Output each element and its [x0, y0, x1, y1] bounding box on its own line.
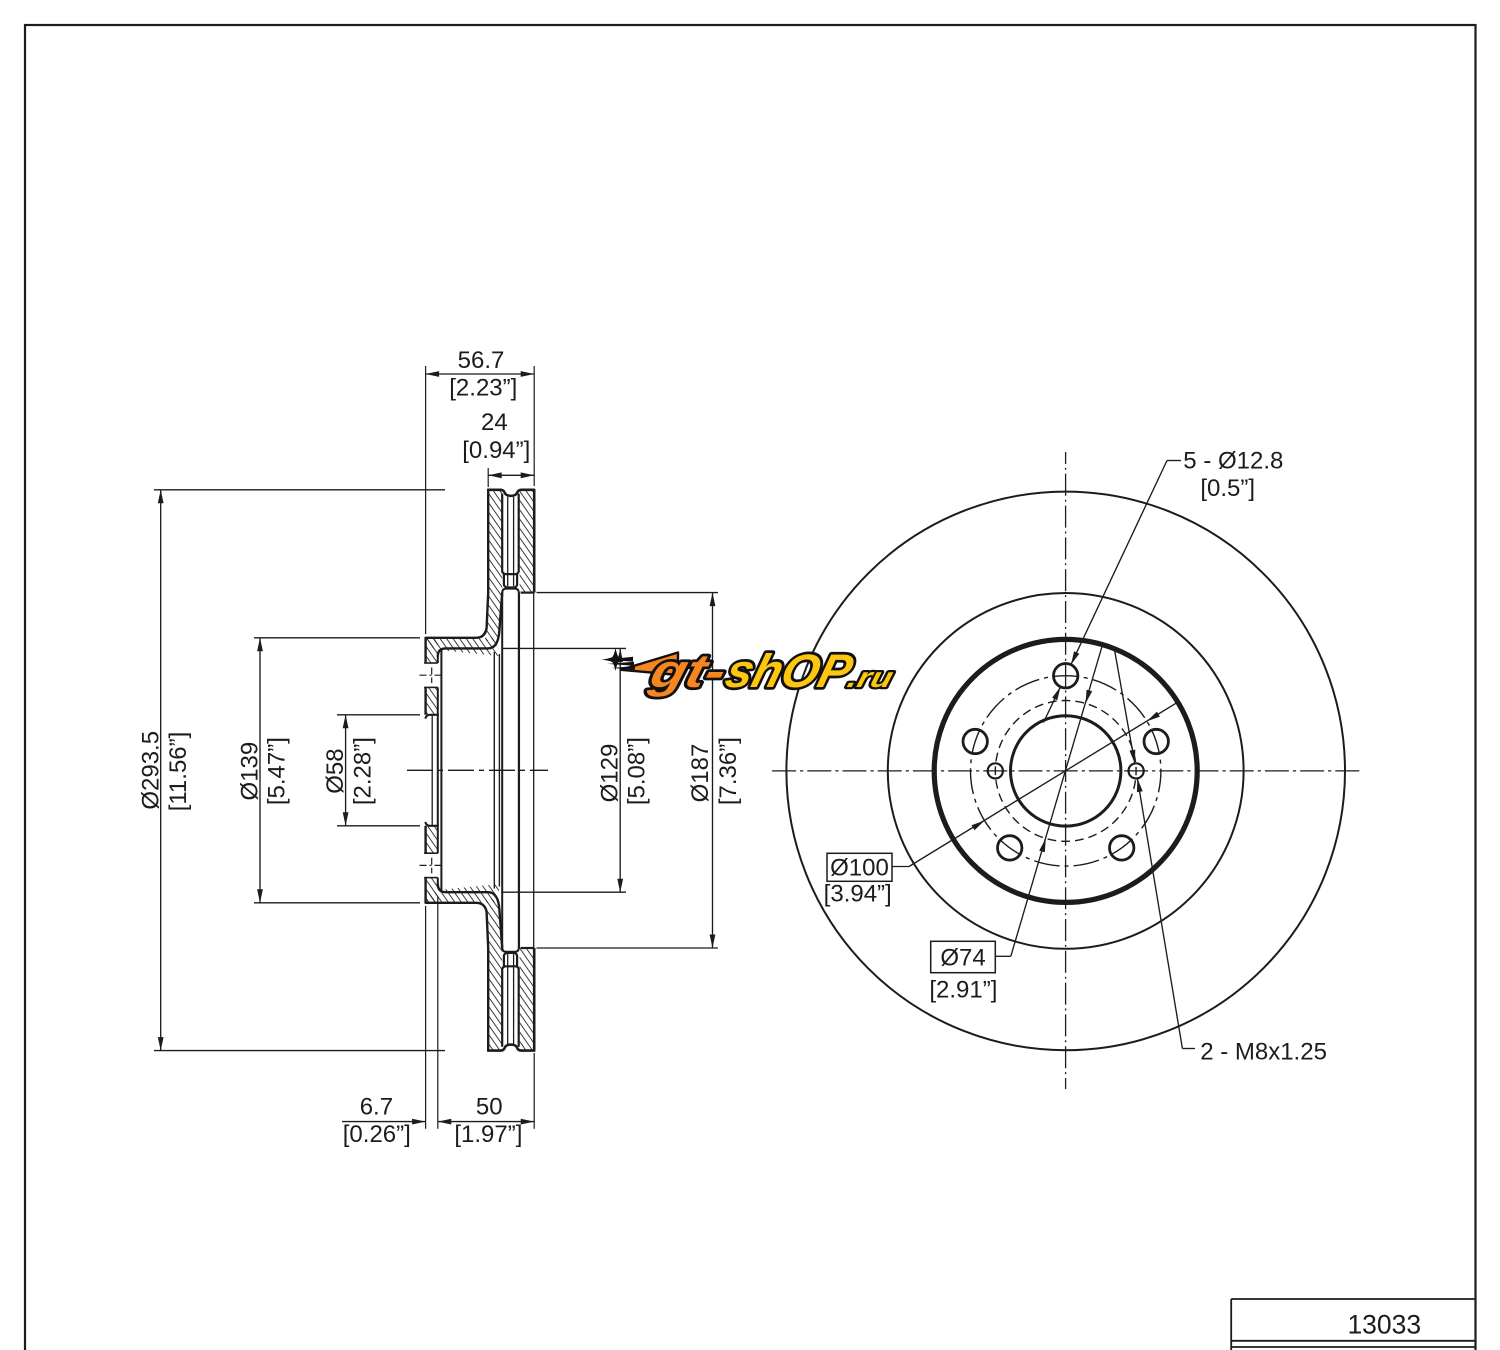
svg-text:Ø58: Ø58	[322, 748, 349, 793]
dim 56.7 line	[426, 373, 535, 375]
dim 6.7 arrow	[412, 1119, 426, 1125]
dim O58 line	[345, 715, 347, 826]
dim O139 line	[259, 638, 261, 903]
svg-text:[2.91”]: [2.91”]	[929, 976, 997, 1003]
section flange left face	[424, 638, 426, 663]
leader 5-O12.8 line lower	[1044, 687, 1061, 723]
dim O293.5 line	[160, 490, 162, 1051]
svg-text:[1.97”]: [1.97”]	[454, 1121, 522, 1148]
dim O58 arrows	[343, 715, 349, 729]
svg-text:5 - Ø12.8: 5 - Ø12.8	[1183, 447, 1283, 474]
dim O100 arrows	[972, 821, 985, 831]
section background line (neck silhouette a)	[493, 652, 495, 889]
section inboard face and neck lower	[426, 903, 489, 1051]
section neck inner + skirt inner upper	[438, 593, 502, 656]
section outboard plate inner edge lower	[521, 947, 535, 949]
dim 6.7/50 extension lines	[425, 906, 427, 1129]
circle O100 boltcircle dashdot	[970, 676, 1160, 866]
section vane lines lower	[507, 954, 509, 1044]
section background line (neck silhouette b)	[498, 654, 500, 887]
svg-text:Ø74: Ø74	[940, 945, 985, 972]
dim O293.5 arrows	[158, 490, 164, 504]
dim M8 arrow upper	[1130, 750, 1136, 764]
leader 5-O12.8 line upper	[1167, 460, 1181, 462]
M8 hole right	[1129, 763, 1144, 778]
front view centerline vertical	[1065, 452, 1067, 1089]
section inboard face and neck upper	[426, 490, 489, 638]
dim 50 arrows	[438, 1119, 452, 1125]
bolt hole O12.8 #5	[1144, 729, 1168, 753]
svg-text:[2.23”]: [2.23”]	[449, 375, 517, 402]
dim O74 diameter line	[995, 955, 1011, 957]
dim M8 line upper	[1114, 649, 1135, 764]
dim 6.7 line	[342, 1121, 426, 1123]
leader 5-O12.8 arrow upper	[1071, 651, 1079, 665]
section bolt hole center mark lower	[420, 864, 444, 866]
dim O129 arrows	[617, 648, 623, 662]
section disc outboard face upper	[533, 490, 536, 593]
circle outer O293.5	[786, 492, 1345, 1051]
section hatch: inboard plate upper	[488, 490, 502, 593]
svg-text:56.7: 56.7	[458, 347, 505, 374]
dim 56.7 arrows	[426, 371, 440, 377]
section disc bottom edge with vent notch	[488, 1045, 534, 1051]
section background line (outboard face silhouette)	[533, 593, 535, 948]
section hatch: flange upper a	[426, 638, 438, 663]
section vent channel walls lower	[502, 966, 519, 1046]
section hatch: outboard plate lower	[520, 948, 535, 1051]
circle O187	[888, 593, 1244, 949]
section vane lines upper	[507, 497, 509, 587]
section flange bolt hole lower edges	[424, 852, 438, 854]
section bore upper edge	[426, 715, 438, 718]
section hatch: neck upper	[486, 593, 502, 641]
circle O74 dashed	[995, 701, 1136, 842]
section centerline	[407, 769, 548, 771]
dim O187 extension lines	[537, 592, 719, 594]
dim O129 extension lines	[503, 647, 626, 649]
svg-text:[0.5”]: [0.5”]	[1200, 475, 1255, 502]
section hatch: skirt fillet upper	[438, 648, 499, 656]
svg-text:[5.47”]: [5.47”]	[264, 737, 291, 805]
logo gt-shop.ru watermark	[602, 646, 897, 698]
dim O139 extension lines	[254, 637, 420, 639]
circle O139 thick	[934, 639, 1197, 902]
dim O74 arrows	[1039, 838, 1046, 852]
svg-text:Ø187: Ø187	[687, 744, 714, 803]
section disc top edge with vent notch	[488, 490, 534, 496]
section background line (flange-skirt edge)	[440, 648, 442, 892]
title block box	[1231, 1298, 1475, 1300]
front view centerline horizontal	[770, 770, 1360, 772]
svg-text:Ø129: Ø129	[597, 744, 624, 803]
label O74 box	[931, 941, 996, 972]
svg-text:24: 24	[481, 409, 508, 436]
svg-text:6.7: 6.7	[360, 1094, 393, 1121]
svg-text:[0.94”]: [0.94”]	[462, 437, 530, 464]
section vane end capsule lower	[504, 953, 517, 966]
svg-text:Ø100: Ø100	[830, 855, 889, 882]
section disc outboard face lower	[533, 948, 536, 1051]
section outboard plate inner edge upper	[521, 591, 535, 593]
svg-text:50: 50	[476, 1094, 503, 1121]
svg-text:[2.28”]: [2.28”]	[349, 737, 376, 805]
leader 5-O12.8 arrow lower	[1052, 687, 1060, 701]
svg-text:Ø293.5: Ø293.5	[137, 731, 164, 810]
section flange bolt hole upper edges	[424, 662, 438, 664]
dim O129 line	[619, 648, 621, 892]
svg-text:gt-: gt-	[644, 646, 732, 698]
section hatch: neck lower	[486, 899, 502, 948]
label O100 box	[827, 853, 892, 881]
dim O187 arrows	[710, 593, 716, 607]
section background line (channel wall silhouette)	[518, 593, 520, 948]
dim 24 extension line	[487, 468, 489, 487]
section hatch: inboard plate lower	[488, 948, 502, 1051]
dim O139 arrows	[257, 638, 263, 652]
svg-text:[5.08”]: [5.08”]	[624, 737, 651, 805]
dim 24 arrows	[488, 472, 502, 478]
svg-text:[11.56”]: [11.56”]	[165, 732, 192, 812]
section flange right face	[437, 656, 439, 663]
bolt hole O12.8 #2	[963, 729, 987, 753]
section hatch: flange lower a	[426, 826, 438, 853]
section vent channel walls upper	[502, 495, 519, 575]
svg-text:Ø139: Ø139	[237, 742, 264, 801]
dim O100 diameter line	[892, 866, 909, 868]
dim 56.7 extension lines	[425, 366, 427, 634]
svg-text:[3.94”]: [3.94”]	[824, 881, 892, 908]
section hatch: flange lower b	[426, 878, 438, 903]
dim 24 line	[488, 474, 534, 476]
section vane end capsule upper	[504, 575, 517, 588]
bolt hole O12.8 #4	[1110, 836, 1134, 860]
section bolt hole center mark upper	[420, 674, 444, 676]
section background line (bore chamfer edge)	[431, 715, 433, 826]
section neck inner + skirt inner lower	[438, 884, 502, 948]
section interior void capsule	[502, 589, 519, 952]
dim M8 line lower	[1137, 778, 1182, 1048]
dim O293.5 extension lines	[154, 489, 445, 491]
circle bore O58	[1010, 716, 1120, 826]
svg-text:shOP: shOP	[720, 646, 858, 698]
svg-text:13033: 13033	[1347, 1310, 1421, 1340]
section hatch: flange upper b	[426, 687, 438, 714]
svg-text:[7.36”]: [7.36”]	[715, 737, 742, 805]
svg-text:2 - M8x1.25: 2 - M8x1.25	[1200, 1039, 1327, 1066]
section hatch: skirt band lower	[426, 892, 497, 903]
dim O187 line	[712, 593, 714, 948]
dim 50 line	[438, 1121, 534, 1123]
section hatch: outboard plate upper	[520, 490, 535, 593]
bolt hole O12.8 #1	[1054, 664, 1078, 688]
bolt hole O12.8 #3	[998, 836, 1022, 860]
section bore lower edge	[426, 823, 438, 826]
dim O58 extension lines	[337, 714, 420, 716]
svg-text:[0.26”]: [0.26”]	[343, 1121, 411, 1148]
section hatch: skirt fillet lower	[438, 884, 499, 892]
section hatch: skirt band upper	[426, 638, 497, 649]
svg-text:.ru: .ru	[844, 662, 896, 693]
M8 hole left	[988, 763, 1003, 778]
dim M8 arrow lower	[1137, 778, 1143, 792]
